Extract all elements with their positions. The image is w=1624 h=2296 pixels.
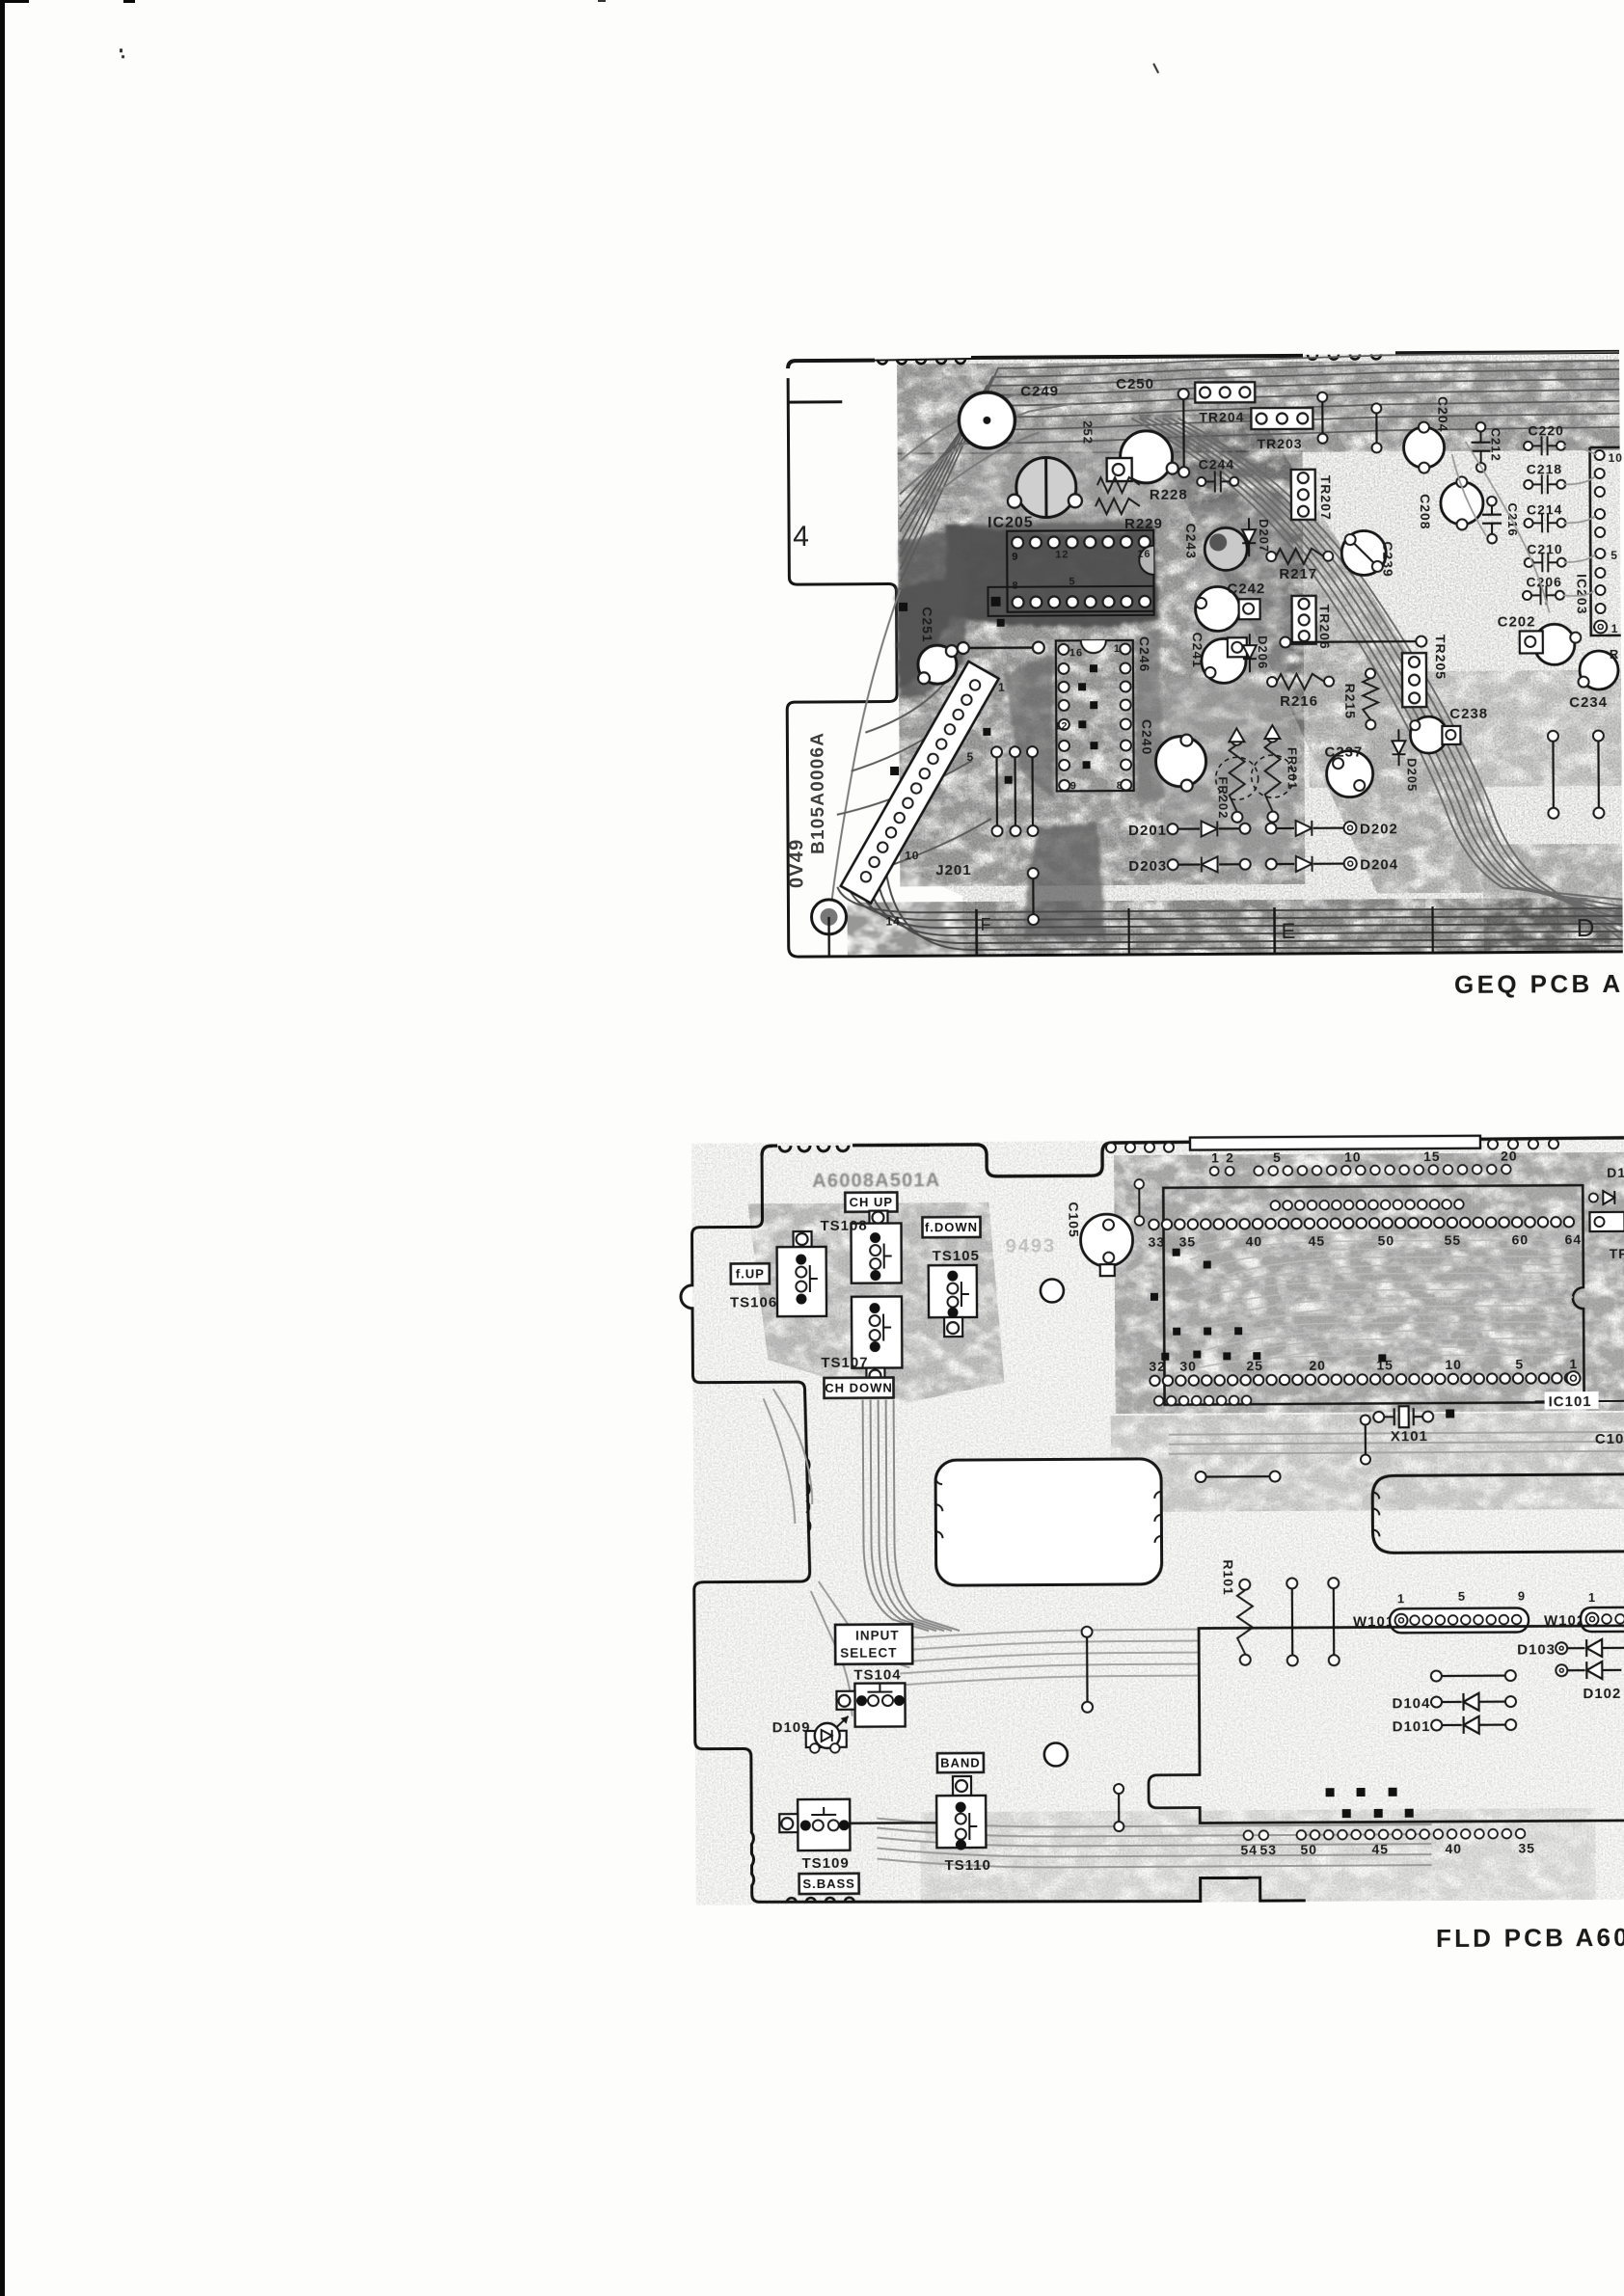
svg-text:C250: C250 xyxy=(1116,376,1154,392)
speckle overlay top board xyxy=(897,352,1623,957)
crystal X101 xyxy=(1373,1406,1454,1445)
svg-text:B105A0006A: B105A0006A xyxy=(807,732,828,854)
svg-text:40: 40 xyxy=(1445,1841,1462,1856)
connector W102 xyxy=(1544,1590,1624,1633)
svg-text:R: R xyxy=(1610,647,1619,662)
capacitor C250 xyxy=(1106,376,1178,483)
stray mark top right xyxy=(120,42,1158,80)
capacitor C234 xyxy=(1569,651,1618,711)
label box CH UP xyxy=(845,1192,897,1211)
fusible resistor FR202 xyxy=(1215,728,1259,823)
svg-text:TS104: TS104 xyxy=(853,1666,901,1683)
label TS105 xyxy=(933,1248,980,1264)
svg-text:C246: C246 xyxy=(1137,636,1152,673)
svg-text:20: 20 xyxy=(1309,1358,1326,1373)
svg-text:12: 12 xyxy=(1055,549,1069,560)
dark copper blob under IC206 xyxy=(1004,630,1165,809)
label box f.DOWN xyxy=(922,1217,980,1237)
capacitor C251 label xyxy=(920,607,935,643)
diode D102 xyxy=(1431,1661,1622,1703)
capacitor C243 xyxy=(1183,523,1247,570)
svg-text:9: 9 xyxy=(1070,780,1077,792)
capacitor C204 xyxy=(1403,396,1450,473)
svg-text:D203: D203 xyxy=(1128,858,1167,875)
svg-text:45: 45 xyxy=(1309,1233,1326,1249)
scan edge artifact left bar xyxy=(0,0,606,2296)
svg-text:C214: C214 xyxy=(1527,501,1563,517)
FL display via squares xyxy=(1326,1788,1414,1819)
wire E251 to IC206 xyxy=(958,642,1044,655)
capacitor C239 xyxy=(1341,530,1395,578)
svg-text:C210: C210 xyxy=(1527,541,1563,556)
capacitor C240 label xyxy=(1139,719,1154,756)
switch TS106 xyxy=(777,1231,827,1316)
svg-text:35: 35 xyxy=(1518,1840,1535,1855)
wires under J201 xyxy=(991,746,1039,925)
transistor TR203 pads xyxy=(1251,408,1313,451)
label TS108 xyxy=(820,1218,867,1234)
svg-text:C244: C244 xyxy=(1199,456,1235,472)
svg-text:TS107: TS107 xyxy=(821,1355,868,1371)
J201 label xyxy=(935,862,971,878)
diode D203 row xyxy=(1128,855,1398,875)
svg-text:D109: D109 xyxy=(772,1719,811,1736)
label box S.BASS xyxy=(799,1874,859,1894)
label box INPUT SELECT xyxy=(835,1624,912,1663)
svg-text:GEQ PCB A: GEQ PCB A xyxy=(1454,969,1624,999)
IC205 socket lower row with square pad xyxy=(988,586,1153,616)
wire curves top left corner xyxy=(828,384,1076,902)
svg-text:50: 50 xyxy=(1300,1842,1317,1857)
svg-text:BAND: BAND xyxy=(940,1756,981,1770)
board id text A6000A501B 94V0 xyxy=(785,732,828,888)
capacitor C105 xyxy=(1066,1202,1132,1276)
IC101 label xyxy=(1535,1391,1624,1411)
texture switch cluster xyxy=(747,1202,1004,1404)
IC101 pin row bottom numbers xyxy=(1149,1356,1580,1388)
svg-text:9: 9 xyxy=(1012,552,1018,563)
grid index numeral 4 xyxy=(793,521,810,553)
svg-text:f.UP: f.UP xyxy=(736,1266,765,1281)
capacitor C241 xyxy=(1190,632,1247,683)
texture patch above bottom edge xyxy=(920,1808,1596,1904)
svg-text:INPUT: INPUT xyxy=(855,1628,900,1642)
svg-text:53: 53 xyxy=(1259,1842,1277,1857)
diode D201 row xyxy=(1128,820,1398,839)
svg-text:SELECT: SELECT xyxy=(840,1645,897,1660)
svg-text:TR207: TR207 xyxy=(1318,475,1334,521)
via hole left of display xyxy=(1044,1742,1068,1766)
bottom pad row numbers 54 53 50 45 40 35 xyxy=(1240,1829,1535,1858)
trace bundle from CH DOWN down xyxy=(863,1399,960,1632)
diode D205 xyxy=(1392,729,1419,792)
svg-text:C212: C212 xyxy=(1488,428,1502,462)
capacitor C242 xyxy=(1195,581,1265,631)
diode D104 xyxy=(1392,1693,1516,1713)
pad ring center bottom xyxy=(1155,734,1205,791)
resistor R229 xyxy=(1096,499,1163,532)
label box f.UP xyxy=(731,1263,770,1283)
capacitor C102 cut label xyxy=(1595,1431,1624,1447)
svg-text:C218: C218 xyxy=(1527,461,1563,476)
label TS104 xyxy=(853,1666,901,1683)
svg-text:1: 1 xyxy=(1611,622,1619,635)
svg-text:20: 20 xyxy=(1501,1148,1518,1164)
svg-text:C204: C204 xyxy=(1435,396,1450,433)
IC101 inner texture lines xyxy=(1173,1231,1574,1374)
svg-text:D: D xyxy=(1577,913,1596,942)
svg-text:IC101: IC101 xyxy=(1549,1393,1592,1410)
svg-text:S.BASS: S.BASS xyxy=(802,1877,854,1891)
svg-text:10: 10 xyxy=(1609,451,1623,465)
capacitor C220 xyxy=(1524,422,1565,455)
svg-text:TR204: TR204 xyxy=(1199,409,1244,424)
capacitor C218 xyxy=(1524,461,1565,494)
pads right top edge xyxy=(1106,1139,1558,1152)
diode D1xx cut at right edge xyxy=(1589,1165,1624,1261)
svg-text:R216: R216 xyxy=(1280,693,1318,710)
svg-text:C208: C208 xyxy=(1418,494,1433,530)
svg-text:2: 2 xyxy=(1226,1149,1234,1165)
date stamp 9493 xyxy=(1006,1235,1057,1256)
svg-text:D201: D201 xyxy=(1128,823,1167,839)
svg-text:TR205: TR205 xyxy=(1433,635,1448,680)
svg-text:1: 1 xyxy=(1588,1590,1596,1605)
mounting pad bottom left xyxy=(811,900,846,956)
resistor R228 xyxy=(1097,477,1188,504)
IC205 label xyxy=(988,515,1034,531)
svg-text:C102: C102 xyxy=(1595,1431,1624,1447)
diode D206 xyxy=(1243,634,1270,672)
speckle overlay bottom board xyxy=(691,1138,1624,1905)
connector W101 xyxy=(1353,1588,1529,1633)
svg-text:C251: C251 xyxy=(920,607,935,643)
svg-text:16: 16 xyxy=(1069,647,1083,659)
capacitor C208 xyxy=(1418,476,1483,529)
svg-text:9: 9 xyxy=(1518,1588,1526,1603)
IC101 upper inner pad row xyxy=(1271,1200,1464,1210)
svg-text:8: 8 xyxy=(1117,780,1123,792)
IC101 via squares xyxy=(1150,1247,1387,1363)
label TS109 xyxy=(801,1855,849,1872)
wire link right of TR203 xyxy=(1371,403,1381,452)
svg-text:TR203: TR203 xyxy=(1258,436,1303,451)
svg-text:C240: C240 xyxy=(1139,719,1154,756)
FL display block outline xyxy=(1148,1626,1624,1823)
svg-text:C234: C234 xyxy=(1569,694,1608,711)
svg-text:R228: R228 xyxy=(1150,487,1188,503)
svg-text:5: 5 xyxy=(1610,549,1618,562)
svg-text:C238: C238 xyxy=(1449,706,1488,722)
svg-text:5: 5 xyxy=(1458,1589,1466,1604)
svg-text:D101: D101 xyxy=(1393,1718,1431,1735)
wire curves center left xyxy=(836,674,991,873)
gray blob C249 area xyxy=(960,418,1197,539)
svg-text:TS106: TS106 xyxy=(730,1294,777,1310)
pad row top edge numbers 1 2 5 10 15 20 xyxy=(1210,1148,1518,1176)
svg-text:1: 1 xyxy=(1397,1591,1405,1606)
connector J201 xyxy=(839,662,1007,929)
svg-text:FLD PCB A60: FLD PCB A60 xyxy=(1436,1923,1624,1953)
switch TS105 xyxy=(929,1265,977,1337)
svg-text:25: 25 xyxy=(1246,1358,1263,1373)
wire link above display xyxy=(1196,1472,1281,1483)
capacitor C252 label xyxy=(1080,420,1095,445)
capacitor C206 xyxy=(1523,574,1564,605)
display window rounded rect right xyxy=(1372,1474,1624,1553)
svg-text:TS110: TS110 xyxy=(944,1857,990,1874)
label box CH DOWN xyxy=(824,1377,893,1397)
capacitor C237 xyxy=(1324,743,1372,797)
wire bundle bottom edge xyxy=(837,863,1623,951)
diode D101 xyxy=(1393,1716,1517,1736)
label box BAND xyxy=(937,1753,984,1772)
transistor TR207 pads xyxy=(1291,470,1334,521)
GEQ PCB board outline A6000A501B xyxy=(785,352,1623,957)
caption GEQ PCB A xyxy=(1454,969,1624,999)
capacitor C214 xyxy=(1524,501,1565,532)
IC101 pin row top numbers xyxy=(1148,1217,1582,1250)
resistor R217 xyxy=(1266,549,1333,582)
resistor R216 xyxy=(1267,674,1334,710)
wire below X101 xyxy=(1361,1415,1370,1464)
wire link top left of IC101 xyxy=(1134,1179,1144,1226)
svg-text:4: 4 xyxy=(793,521,810,553)
svg-text:C242: C242 xyxy=(1227,581,1265,597)
svg-text:12: 12 xyxy=(1054,720,1068,732)
svg-text:1: 1 xyxy=(1211,1149,1220,1165)
svg-text:35: 35 xyxy=(1179,1234,1197,1250)
svg-text:D207: D207 xyxy=(1257,519,1271,553)
transistor TR205 wire link xyxy=(1280,636,1426,648)
trace curls right edge xyxy=(1452,441,1598,613)
IC203 socket xyxy=(1574,447,1624,635)
switch TS107 xyxy=(852,1296,903,1383)
svg-text:C239: C239 xyxy=(1380,541,1395,578)
svg-text:15: 15 xyxy=(1423,1148,1441,1164)
svg-text:D204: D204 xyxy=(1360,856,1398,873)
svg-text:D104: D104 xyxy=(1392,1695,1430,1712)
capacitor C238 xyxy=(1410,706,1488,753)
svg-text:C105: C105 xyxy=(1066,1202,1081,1238)
mounting hole pad top left xyxy=(959,392,1015,448)
svg-text:10: 10 xyxy=(1445,1357,1462,1372)
wire link left vertical xyxy=(1082,1627,1094,1713)
svg-text:60: 60 xyxy=(1512,1231,1529,1247)
IC205 socket pin rows xyxy=(1007,530,1154,612)
svg-text:IC205: IC205 xyxy=(988,515,1034,531)
switch TS104 xyxy=(836,1683,905,1726)
transistor TR206 pads xyxy=(1292,596,1333,650)
svg-text:14: 14 xyxy=(886,914,901,928)
svg-text:R101: R101 xyxy=(1221,1559,1236,1596)
trace texture field top band xyxy=(897,360,1620,455)
wire bundle along top edge xyxy=(899,352,1620,582)
svg-text:C243: C243 xyxy=(1183,524,1199,560)
diode D207 xyxy=(1242,518,1271,556)
switch TS109 xyxy=(779,1799,850,1850)
svg-text:16: 16 xyxy=(1137,549,1150,560)
gray blob upper mid xyxy=(1197,499,1289,673)
svg-text:55: 55 xyxy=(1445,1232,1462,1248)
svg-text:45: 45 xyxy=(1371,1841,1389,1856)
fusible resistor FR201 xyxy=(1251,725,1300,823)
svg-text:C249: C249 xyxy=(1020,383,1059,399)
label TS110 xyxy=(944,1857,990,1874)
trace bundle below IC101 xyxy=(1169,1432,1624,1454)
resistor R215 xyxy=(1342,668,1378,729)
svg-text:D205: D205 xyxy=(1405,758,1420,792)
via squares cluster left xyxy=(889,602,1013,784)
display window rounded rect left xyxy=(935,1459,1162,1585)
label TS106 xyxy=(730,1294,777,1310)
trace texture field right diagonal xyxy=(1138,412,1622,953)
texture field IC101 xyxy=(1114,1152,1624,1414)
svg-text:D206: D206 xyxy=(1256,635,1270,669)
svg-text:FR201: FR201 xyxy=(1285,747,1299,790)
capacitor C249 xyxy=(1007,383,1082,517)
trace texture field bottom band xyxy=(847,898,1622,957)
svg-text:40: 40 xyxy=(1246,1233,1263,1249)
svg-text:54: 54 xyxy=(1240,1842,1258,1857)
LED D109 xyxy=(772,1716,849,1753)
svg-text:D102: D102 xyxy=(1583,1686,1621,1702)
svg-text:50: 50 xyxy=(1378,1232,1395,1248)
texture patch below IC101 xyxy=(1111,1413,1624,1512)
svg-text:5: 5 xyxy=(1273,1149,1282,1165)
svg-text:TS109: TS109 xyxy=(801,1855,849,1872)
FLD PCB board outline A6008A501A xyxy=(680,1138,1624,1904)
capacitor C216 xyxy=(1482,497,1520,544)
wire links right of R101 xyxy=(1286,1578,1340,1665)
trace bundle center horizontal xyxy=(900,1630,1199,1686)
diode D103 xyxy=(1517,1639,1624,1659)
svg-text:TS105: TS105 xyxy=(933,1248,980,1264)
resistor R231 cut at edge xyxy=(1610,647,1619,662)
scan content group with slight skew xyxy=(120,40,1624,1960)
wire pair right bottom xyxy=(1548,730,1605,818)
svg-text:C202: C202 xyxy=(1498,613,1536,630)
via hole below C105 xyxy=(1041,1279,1064,1302)
caption FLD PCB A60 xyxy=(1436,1923,1624,1953)
capacitor C210 xyxy=(1525,541,1566,572)
resistor R101 xyxy=(1221,1559,1254,1665)
label TS107 xyxy=(821,1355,868,1371)
capacitor C244 xyxy=(1197,456,1238,492)
svg-text:1: 1 xyxy=(998,681,1006,694)
dark copper blob bottom center xyxy=(1022,823,1106,939)
svg-text:X101: X101 xyxy=(1391,1428,1428,1445)
pad E251 xyxy=(918,645,958,684)
svg-text:F: F xyxy=(981,915,992,934)
transistor TR204 pads xyxy=(1195,382,1255,424)
svg-text:R217: R217 xyxy=(1279,566,1317,582)
svg-text:252: 252 xyxy=(1080,420,1095,445)
wire link above C204 xyxy=(1317,392,1327,444)
svg-text:5: 5 xyxy=(1515,1356,1524,1371)
svg-text:D1: D1 xyxy=(1607,1165,1624,1180)
svg-text:1: 1 xyxy=(1114,643,1121,655)
IC101 lower outer pad row xyxy=(1154,1395,1252,1405)
svg-text:D202: D202 xyxy=(1360,821,1398,837)
svg-text:TR: TR xyxy=(1610,1246,1624,1261)
svg-text:FR202: FR202 xyxy=(1216,776,1231,819)
trace bundle to display xyxy=(877,1815,1431,1869)
gray blob right of IC206 xyxy=(1164,677,1290,866)
svg-text:5: 5 xyxy=(966,750,974,764)
svg-text:33: 33 xyxy=(1149,1234,1166,1250)
switch TS108 xyxy=(851,1210,901,1283)
svg-text:C206: C206 xyxy=(1526,574,1562,589)
capacitor C246 label xyxy=(1137,636,1152,673)
svg-text:TS108: TS108 xyxy=(820,1218,867,1234)
wire TS109 to TS110 xyxy=(850,1822,936,1824)
capacitor C212 xyxy=(1471,422,1502,473)
wire link left of display xyxy=(1114,1784,1123,1831)
svg-text:R215: R215 xyxy=(1342,684,1358,720)
svg-text:0V49: 0V49 xyxy=(786,839,807,889)
svg-text:1: 1 xyxy=(1569,1356,1578,1371)
dark copper blob around IC205 xyxy=(896,521,1159,689)
svg-text:C241: C241 xyxy=(1190,632,1205,668)
trace texture field center xyxy=(898,450,1306,887)
svg-text:f.DOWN: f.DOWN xyxy=(925,1220,978,1234)
svg-text:10: 10 xyxy=(905,849,919,862)
capacitor C202 xyxy=(1498,613,1582,665)
svg-text:10: 10 xyxy=(1344,1149,1362,1165)
transistor TR205 pads xyxy=(1402,635,1448,707)
svg-text:C220: C220 xyxy=(1528,422,1564,438)
svg-text:D103: D103 xyxy=(1517,1641,1556,1658)
dark copper blob left of IC205 xyxy=(899,527,969,697)
svg-text:E: E xyxy=(1282,919,1297,943)
svg-text:32: 32 xyxy=(1149,1359,1166,1374)
IC101 outline xyxy=(1163,1185,1583,1405)
grid tick F xyxy=(976,908,1128,956)
wire link near TR204 xyxy=(1178,389,1190,477)
svg-text:C237: C237 xyxy=(1324,744,1363,761)
svg-text:64: 64 xyxy=(1565,1231,1583,1247)
svg-text:30: 30 xyxy=(1179,1359,1197,1374)
switch TS110 xyxy=(936,1776,986,1850)
wire bundle sweeping diagonal xyxy=(1131,416,1622,943)
board id stamp A6008A501A xyxy=(812,1170,940,1192)
connector strip top edge xyxy=(1190,1136,1480,1150)
svg-text:J201: J201 xyxy=(935,862,971,878)
grid tick E xyxy=(1274,906,1432,954)
IC206 socket xyxy=(1054,640,1134,792)
svg-text:CH UP: CH UP xyxy=(850,1195,894,1209)
trace bundle left diagonal xyxy=(764,1388,910,1716)
grid tick D xyxy=(1577,913,1596,942)
svg-text:CH DOWN: CH DOWN xyxy=(825,1381,893,1395)
